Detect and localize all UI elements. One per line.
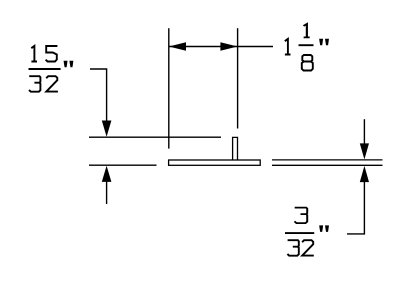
dimension text 15/32 denominator	[29, 76, 40, 92]
dimension text 1/8 numerator	[304, 24, 310, 37]
flat plate outline	[169, 160, 261, 165]
right dimension up arrowhead	[360, 166, 369, 182]
tail of left up arrow	[106, 182, 108, 205]
inch marks after 15/32	[64, 61, 74, 67]
top dimension line with leader to text	[169, 46, 273, 48]
fraction bar of 1/8	[299, 44, 314, 46]
right strip bottom line	[272, 164, 383, 166]
fraction bar of 15/32	[29, 68, 61, 70]
lower reference line (plate bottom level, left side)	[89, 164, 157, 166]
right extension line of top dimension	[237, 28, 239, 128]
left dimension up arrowhead	[102, 166, 112, 182]
tail of right down arrow	[363, 119, 365, 144]
tail and leader of 3/32 dimension	[347, 182, 364, 234]
top dimension left arrowhead	[169, 42, 186, 51]
dimension text 3/32 denominator	[287, 240, 298, 256]
right strip top line	[272, 159, 383, 161]
dimension text 3/32 numerator	[294, 208, 307, 224]
vertical tab on plate	[233, 137, 238, 160]
left dimension down arrowhead	[102, 121, 112, 137]
fraction bar of 3/32	[285, 232, 314, 234]
upper reference line (tab top level, left side)	[89, 136, 221, 138]
dimension text 1/8 denominator	[302, 55, 313, 71]
inch marks after 1 1/8	[319, 39, 329, 46]
leader of 15/32 dimension	[90, 69, 107, 121]
top dimension right arrowhead	[220, 42, 237, 51]
inch marks after 3/32	[319, 225, 329, 232]
dimension text 1 (whole number of 1 1/8)	[285, 39, 291, 55]
left extension line of top dimension	[168, 28, 170, 148]
right dimension down arrowhead	[360, 143, 369, 159]
dimension text 15/32 numerator	[31, 46, 37, 62]
